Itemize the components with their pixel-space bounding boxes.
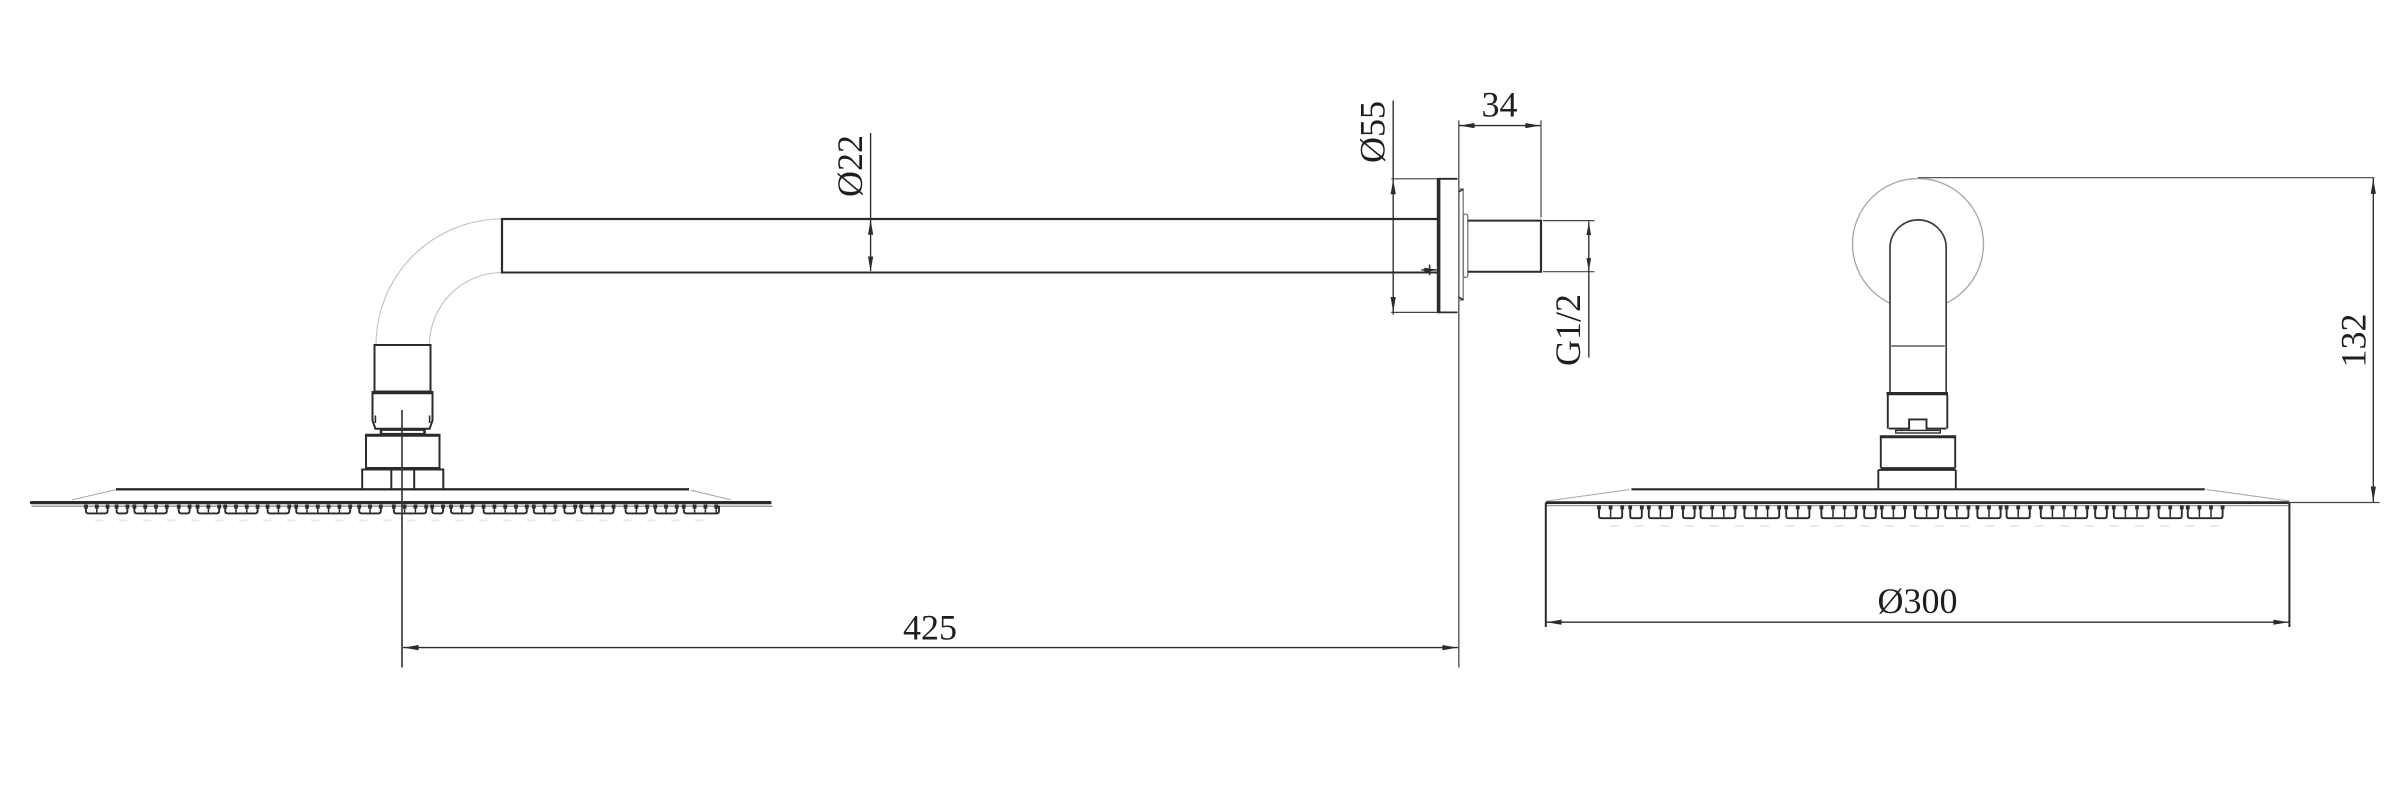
arm tube divider [1891,345,1945,347]
nozzle row (front view) [1597,505,2224,518]
shower arm bend (inner arc) [430,273,503,346]
ball joint collar [381,430,425,435]
neck/nut divider line [372,391,434,394]
label 34 [1482,85,1518,125]
svg-text:34: 34 [1482,85,1518,125]
lower mounting nut [365,435,441,468]
label G1/2 [1548,294,1588,366]
upper swivel nut [373,393,433,429]
dimension 132 lines [1918,178,2380,503]
nozzle row (side view) [84,505,719,514]
svg-text:Ø300: Ø300 [1878,581,1958,621]
lower nut (front view) [1880,437,1956,468]
label 132 [2334,314,2374,368]
centerline of arm joint [401,410,403,668]
disc top face line (front view) [1631,488,2204,490]
disc bottom rim (thick) [32,501,771,504]
disc bottom underline [32,505,773,507]
svg-text:425: 425 [903,608,957,648]
faint nozzle shadow row (side view) [95,520,706,522]
pipe collar ring [1463,214,1467,278]
right foot block [413,471,415,489]
label Phi55 [1353,101,1393,163]
thin collar (front view) [1896,430,1941,433]
svg-text:G1/2: G1/2 [1548,294,1588,366]
disc left taper edge [72,490,116,500]
svg-text:Ø22: Ø22 [830,135,870,197]
bottom base (front view) [1878,470,1956,489]
wall flange circle (front view) [1853,179,1984,310]
dimension G1/2 line [1543,221,1595,358]
neck bottom thick line [1887,392,1949,395]
dimension 425 line [403,645,1458,650]
dimension Phi300 line [1546,620,2289,625]
disc top face line [116,488,689,490]
disc right taper (front view) [2207,490,2289,501]
arm tube (front view, covers circle) [1890,220,1946,346]
disc rim top edge (front view) [1546,501,2290,504]
svg-text:Ø55: Ø55 [1353,101,1393,163]
left foot block [362,470,443,489]
disc rim underline (front view) [1546,505,2289,507]
upper nut (front view) [1888,395,1948,429]
disc left taper (front view) [1547,490,1629,501]
faint nozzle shadow row (front view) [1610,525,2225,527]
flange back plate [1459,189,1463,300]
clamp tab [1909,419,1926,429]
disc right taper edge [691,490,731,500]
dimension line Phi22 [868,133,873,272]
label Phi300 [1878,581,1958,621]
wall surface line [1458,121,1460,668]
wire / shower arm bend (outer arc) [376,219,502,345]
disc side edges / Phi300 extension lines [1546,503,2290,627]
shower arm tube (horizontal) [502,218,1438,274]
label Phi22 [830,135,870,197]
label 425 [903,608,957,648]
svg-text:132: 132 [2334,314,2374,368]
arm lower neck [375,345,431,392]
dimension 34 line [1459,120,1541,217]
wall supply pipe stub [1468,220,1541,273]
wall flange plate (edge view) [1437,179,1458,313]
arm end pointer arrow [1422,265,1438,276]
dimension Phi55 line [1391,101,1437,315]
arm neck (front view) [1890,346,1946,392]
